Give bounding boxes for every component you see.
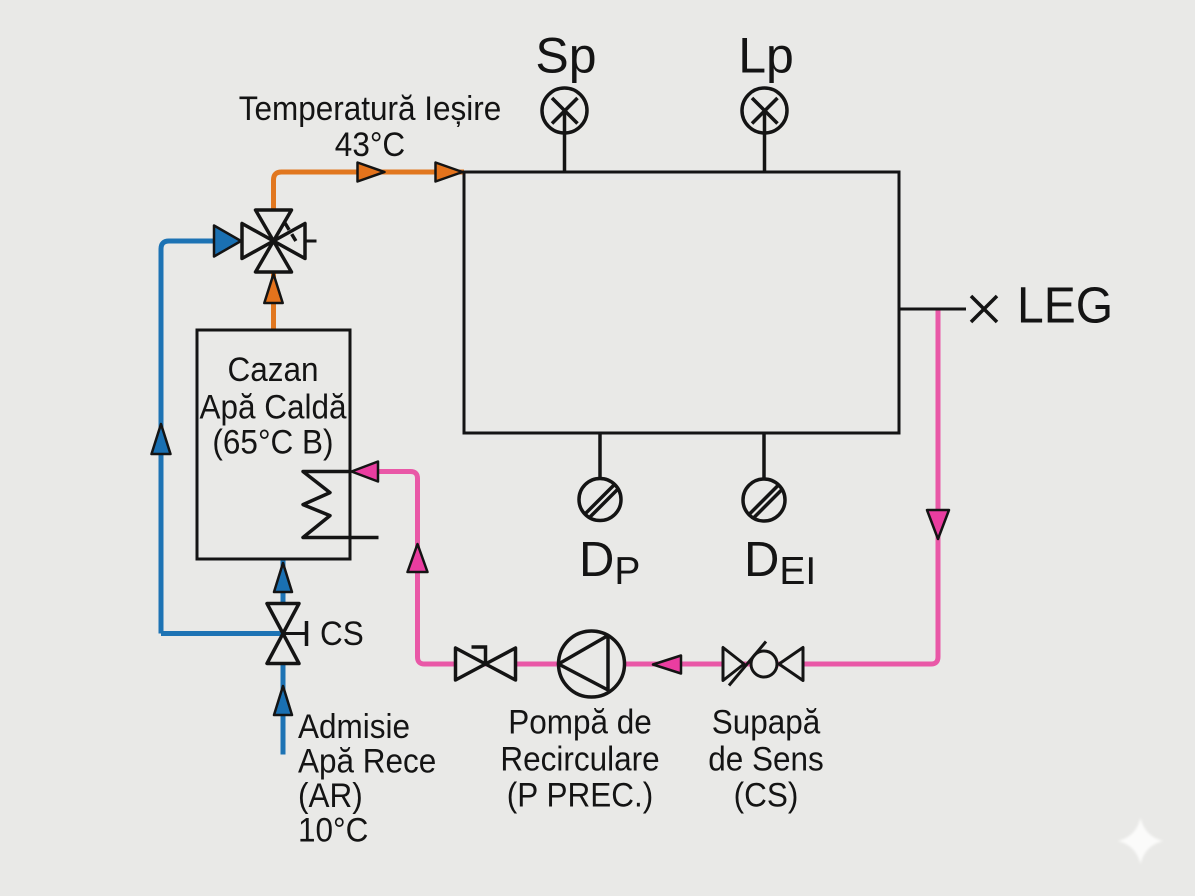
decorative sparkle (white 4-point star) <box>0 0 1 1</box>
svg-text:Apă Caldă: Apă Caldă <box>199 388 347 427</box>
valve: check valve Supapa de Sens (bowtie with circle and slash) <box>723 648 803 681</box>
boiler: Cazan Apa Calda box <box>197 330 350 559</box>
sensor DEI stem <box>762 433 766 479</box>
arrow: blue up arrow on inlet pipe <box>274 686 292 715</box>
arrow: pink up arrow on left vertical <box>408 544 428 572</box>
valve CS: vertical bowtie on cold inlet <box>267 604 299 664</box>
sensor Lp circle with X <box>742 88 787 133</box>
wire: orange pipe from boiler top to 3-way valve bottom <box>271 272 276 330</box>
svg-text:Supapă: Supapă <box>712 703 821 742</box>
arrow: orange flow arrow 2 at tank inlet <box>436 163 463 182</box>
wire: pink recirculation pipe right vertical from LEG line <box>378 309 938 664</box>
pump: circle with inscribed left triangle <box>559 631 625 697</box>
tank: main storage rectangle <box>464 172 899 433</box>
svg-text:Apă Rece: Apă Rece <box>298 742 436 781</box>
svg-text:LEG: LEG <box>1017 277 1113 334</box>
sensor Sp stem <box>563 111 567 173</box>
arrow: orange up arrow into 3-way valve <box>264 274 282 303</box>
svg-text:(P PREC.): (P PREC.) <box>507 776 653 815</box>
wire: orange supply pipe from 3-way valve to tank <box>274 172 465 210</box>
arrow: pink down arrow on right vertical <box>927 510 949 539</box>
valve actuator dashed stem <box>285 223 298 245</box>
svg-text:CS: CS <box>320 615 364 654</box>
svg-text:Sp: Sp <box>535 28 596 84</box>
arrow: blue up arrow below boiler <box>274 563 292 592</box>
sensor Lp stem <box>763 111 767 173</box>
arrow: blue arrow into 3-way valve left port <box>214 226 241 257</box>
wire: blue recirculated cold pipe left vertical + top to 3-way valve <box>161 241 217 634</box>
symbol: X end cap on LEG line <box>971 296 997 322</box>
svg-text:10°C: 10°C <box>298 811 368 850</box>
sensor Sp circle with X <box>542 88 587 133</box>
svg-text:Admisie: Admisie <box>298 708 410 747</box>
valve: 3-way mixing valve (4 triangles) <box>242 210 305 272</box>
svg-text:43°C: 43°C <box>335 126 405 165</box>
svg-text:Recirculare: Recirculare <box>500 740 659 779</box>
svg-text:Lp: Lp <box>738 28 794 84</box>
arrow: orange flow arrow 1 on supply pipe <box>358 163 385 182</box>
arrow: pink left arrow into boiler coil <box>352 462 379 482</box>
valve handle stub on 3-way valve <box>305 240 317 243</box>
svg-text:(65°C B): (65°C B) <box>212 423 333 462</box>
coil: heat-exchanger zigzag inside boiler <box>303 472 379 538</box>
arrow: pink left arrow between check valve and pump <box>653 656 681 674</box>
wire: black LEG branch line <box>899 308 966 311</box>
svg-text:(AR): (AR) <box>298 777 363 816</box>
sensor DEI circle with double slash <box>743 479 785 521</box>
sensor Dp circle with double slash <box>579 479 621 521</box>
wire: blue bottom horizontal to CS valve <box>161 631 283 636</box>
svg-text:Cazan: Cazan <box>227 351 318 390</box>
svg-text:Temperatură Ieșire: Temperatură Ieșire <box>239 90 502 129</box>
sensor Dp stem <box>598 433 602 479</box>
valve: gate valve on pump suction (bowtie with bracket) <box>456 648 516 680</box>
svg-text:Pompă de: Pompă de <box>508 703 652 742</box>
svg-text:de Sens: de Sens <box>708 740 824 779</box>
valve CS seat symbol <box>283 632 306 635</box>
wire: blue cold water inlet vertical through CS valve to boiler <box>281 664 286 755</box>
arrow: blue up arrow on left vertical pipe <box>152 424 171 454</box>
svg-text:(CS): (CS) <box>734 776 799 815</box>
